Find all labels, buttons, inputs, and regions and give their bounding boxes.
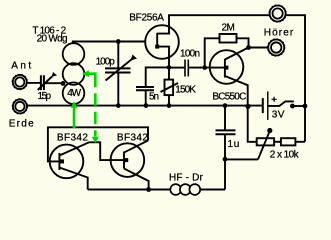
svg-text:BC550C: BC550C (212, 91, 246, 102)
svg-text:150K: 150K (175, 85, 196, 96)
svg-text:2M: 2M (222, 23, 235, 34)
svg-text:BF342: BF342 (117, 133, 148, 144)
svg-text:BF342: BF342 (57, 133, 88, 144)
svg-text:HF - Dr: HF - Dr (169, 172, 204, 183)
svg-text:20 Wdg: 20 Wdg (37, 34, 68, 45)
svg-text:100n: 100n (180, 49, 200, 60)
svg-text:4W: 4W (67, 88, 81, 99)
svg-text:3V: 3V (272, 109, 285, 120)
svg-text:BF256A: BF256A (129, 13, 164, 24)
svg-text:Erde: Erde (9, 118, 34, 129)
svg-text:100p: 100p (96, 56, 116, 67)
svg-text:Ant: Ant (11, 61, 31, 72)
svg-text:1u: 1u (228, 139, 240, 150)
svg-text:Hörer: Hörer (264, 27, 294, 38)
svg-text:2 x 10k: 2 x 10k (270, 150, 300, 161)
svg-text:15p: 15p (38, 91, 52, 102)
svg-text:5n: 5n (149, 92, 159, 103)
